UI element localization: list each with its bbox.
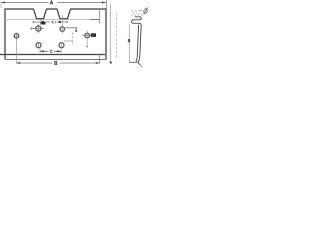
side view bottom L extension horizontal	[129, 61, 137, 63]
hem fold line darker right segment	[90, 19, 100, 21]
H2 centerline arrow tip	[86, 46, 88, 48]
B dim right arrow	[96, 62, 100, 64]
H3 label blob	[41, 22, 46, 25]
c dim left extension	[39, 49, 41, 54]
c dim right arrow	[57, 50, 61, 52]
side view bottom L extension vertical	[128, 24, 130, 62]
plate outline top and sides	[5, 9, 106, 60]
hole H3 horizontal centerline	[31, 24, 44, 33]
H2 label blob	[91, 33, 96, 37]
hole H6 line to right	[64, 40, 73, 42]
notch pitch left square terminator	[42, 21, 44, 23]
c dim label	[51, 50, 53, 53]
c dim left arrow	[40, 50, 44, 52]
hole H2 horizontal line	[83, 34, 91, 36]
c dim right extension	[60, 49, 62, 54]
hole H5 vertical crosshair	[38, 42, 40, 49]
dimension A label	[50, 1, 53, 5]
hole H4 vertical centerline	[61, 15, 63, 34]
dashed centerline x=72.5	[71, 33, 73, 45]
fold line upper segment	[99, 9, 101, 24]
T annotation above H2	[65, 28, 77, 31]
dimension A right arrow	[102, 2, 106, 4]
side view bottom curl outer	[138, 53, 140, 62]
hole H3 circle	[36, 26, 41, 31]
side view stem inner	[137, 25, 138, 53]
side view top S-fold snake	[132, 17, 142, 25]
hole H1 circle	[14, 34, 19, 39]
hole H4 horizontal tick	[59, 28, 65, 30]
side view text dashes	[131, 11, 143, 15]
B dim label	[55, 61, 57, 65]
dimension A left extension	[0, 2, 2, 8]
B dim left arrow	[16, 62, 20, 64]
side view small label blob	[128, 39, 130, 42]
dimension A left arrow	[1, 2, 5, 4]
hole H1 crosshair	[13, 33, 19, 39]
diameter slash symbol top right	[143, 8, 148, 15]
notch pitch right square terminator	[59, 21, 61, 23]
notch pitch left extension tick	[40, 20, 42, 25]
B dimension line	[17, 62, 100, 64]
side view bottom toe flick	[136, 61, 142, 67]
second light extension line x=116.7	[116, 13, 118, 59]
c dimension line	[40, 50, 61, 52]
side view stem outer	[140, 25, 141, 53]
dimension A right extension	[106, 0, 108, 9]
long dashed extension line x=110.5	[110, 4, 112, 63]
dimension A line	[2, 2, 106, 4]
hole H6 vertical crosshair	[61, 42, 63, 49]
notch pitch end dots	[32, 21, 34, 23]
hole H2 vertical centerline	[86, 31, 88, 47]
hole H6 circle	[59, 43, 64, 48]
hole H4 circle	[60, 27, 65, 32]
hole H5 circle	[36, 43, 41, 48]
side view bottom curl inner	[136, 53, 138, 61]
inner bottom line arrowhead	[102, 54, 106, 56]
H3 diameter dim tick	[30, 27, 32, 30]
hem fold line across plate	[5, 19, 90, 21]
hole H1 extension line down	[16, 39, 18, 64]
notch pitch label	[52, 21, 55, 23]
notch pitch dimension line	[33, 21, 68, 23]
hole H2 circle	[85, 33, 90, 38]
plate bottom edge	[5, 59, 106, 61]
fold line lower extension	[99, 55, 101, 64]
terminator blob at bottom of extension line	[110, 62, 112, 64]
T annotation dot	[75, 30, 77, 32]
plate inner bottom line	[0, 54, 105, 56]
